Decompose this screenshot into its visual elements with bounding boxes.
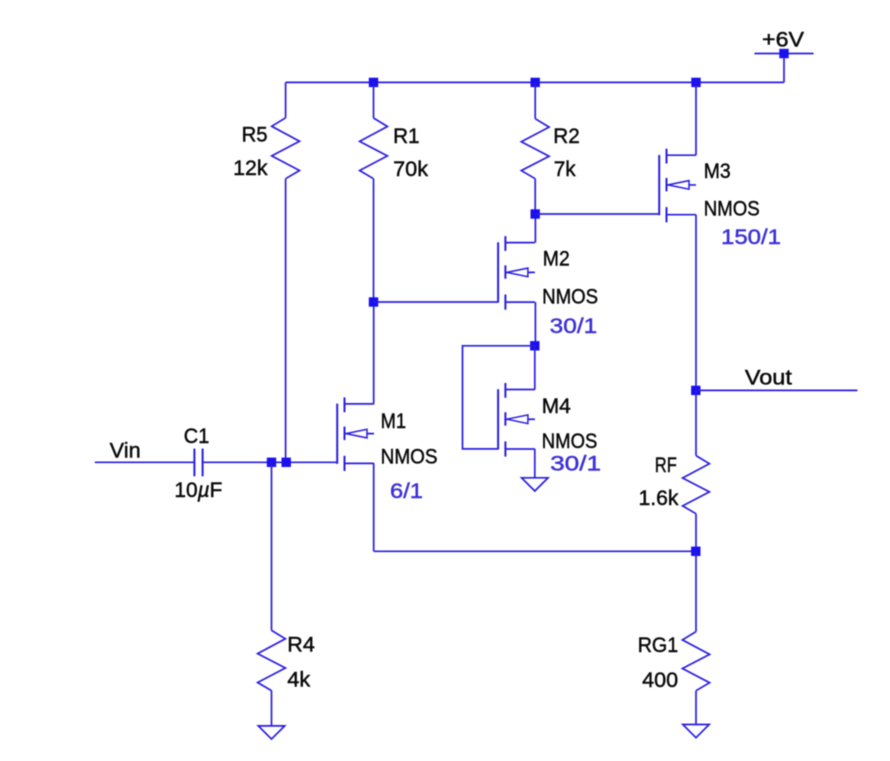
wire M1 source down (373, 463, 375, 551)
wire R5 to input node (285, 179, 287, 463)
wire rail to R5 (285, 82, 287, 117)
label M1 (381, 410, 407, 433)
junction node A (369, 297, 378, 306)
wire node B to M3 gate (535, 213, 659, 215)
svg-text:M4: M4 (542, 395, 571, 418)
svg-text:NMOS: NMOS (542, 430, 598, 453)
svg-text:NMOS: NMOS (542, 286, 598, 309)
junction +6V bar (779, 49, 788, 58)
svg-text:Vin: Vin (110, 439, 141, 462)
resistor R5 (272, 118, 300, 179)
svg-text:10µF: 10µF (174, 479, 222, 502)
value C1 10µF (174, 479, 222, 502)
label M3 (704, 160, 731, 183)
transistor M2 (498, 236, 535, 310)
label M4 (542, 395, 571, 418)
svg-text:12k: 12k (233, 157, 268, 180)
junction Vout (691, 386, 700, 395)
resistor R1 (360, 118, 388, 179)
wire +6V to VDD rail (783, 54, 785, 83)
wire RG1 to ground (695, 691, 697, 725)
value M4 30/1 (550, 452, 601, 475)
svg-text:30/1: 30/1 (550, 452, 601, 475)
value R2 7k (554, 158, 576, 181)
wire Vout to RF (695, 390, 697, 455)
value RF 1.6k (639, 487, 679, 510)
ground M4 (522, 478, 548, 491)
transistor M4 (498, 383, 535, 457)
svg-text:M2: M2 (543, 248, 570, 271)
wire R1 to node A (373, 179, 375, 302)
svg-text:7k: 7k (554, 158, 576, 181)
svg-text:R5: R5 (242, 123, 268, 146)
junction rail / M3 drain (691, 78, 700, 87)
junction rail / R1 (369, 78, 378, 87)
svg-text:Vout: Vout (745, 366, 792, 389)
label R4 (287, 633, 315, 656)
junction input node / R5 (282, 458, 291, 467)
wire VDD rail (286, 81, 784, 83)
junction rail / R2 (531, 78, 540, 87)
svg-text:RF: RF (655, 454, 677, 477)
label M4 NMOS (542, 430, 598, 453)
junction feedback node (691, 547, 700, 556)
wire M4 drain to node C (534, 346, 536, 390)
resistor RG1 (682, 632, 709, 691)
svg-text:400: 400 (642, 669, 678, 692)
wire R2 to node B (534, 179, 536, 214)
wire M1 drain to node A (373, 302, 375, 404)
svg-text:R4: R4 (287, 633, 315, 656)
value R1 70k (393, 158, 429, 181)
svg-text:C1: C1 (184, 425, 210, 448)
svg-text:NMOS: NMOS (381, 445, 438, 468)
label M1 NMOS (381, 445, 438, 468)
resistor RF (683, 456, 710, 514)
label R1 (393, 125, 420, 148)
capacitor C1 (194, 449, 202, 477)
label R5 (242, 123, 268, 146)
node Vin label (110, 439, 141, 462)
wire feedback to RF node (374, 550, 696, 552)
value M1 6/1 (390, 480, 423, 503)
svg-text:4k: 4k (287, 668, 311, 691)
wire Vin to C1 (95, 461, 194, 463)
junction node C (530, 341, 539, 350)
node Vout label (745, 366, 792, 389)
transistor M1 (337, 397, 374, 471)
wire rail to R1 (373, 82, 375, 118)
svg-text:R1: R1 (393, 125, 420, 148)
wire M4 source to ground (534, 449, 536, 478)
label M2 NMOS (542, 286, 598, 309)
svg-text:1.6k: 1.6k (639, 487, 679, 510)
resistor R2 (521, 119, 549, 179)
value M2 30/1 (550, 315, 598, 338)
svg-text:+6V: +6V (762, 28, 804, 51)
svg-text:70k: 70k (393, 158, 429, 181)
svg-text:NMOS: NMOS (704, 197, 760, 220)
resistor R4 (258, 630, 286, 690)
wire C1 to input node (203, 461, 337, 463)
wire input node to R4 (271, 462, 273, 630)
value R5 12k (233, 157, 268, 180)
svg-text:RG1: RG1 (638, 634, 679, 657)
junction node B (531, 209, 540, 218)
svg-text:6/1: 6/1 (390, 480, 423, 503)
svg-text:150/1: 150/1 (721, 226, 781, 249)
wire M2 drain to node B (534, 214, 536, 243)
svg-text:M1: M1 (381, 410, 407, 433)
svg-text:M3: M3 (704, 160, 731, 183)
wire M3 source to Vout (695, 215, 697, 391)
value R4 4k (287, 668, 311, 691)
junction input node / R4 (267, 458, 276, 467)
wire feedback node to RG1 (695, 551, 697, 631)
wire R4 to ground (271, 691, 273, 726)
ground R4 (258, 726, 284, 739)
value M3 150/1 (721, 226, 781, 249)
ground RG1 (683, 725, 709, 738)
label RF (655, 454, 677, 477)
wire rail to R2 (534, 82, 536, 118)
svg-text:R2: R2 (553, 125, 580, 148)
label RG1 (638, 634, 679, 657)
wire node A to M2 gate (374, 301, 499, 303)
wire rail to M3 drain (695, 82, 697, 155)
label C1 (184, 425, 210, 448)
wire Vout (696, 389, 858, 391)
wire RF to feedback node (695, 514, 697, 552)
power symbol +6V (754, 28, 813, 53)
label R2 (553, 125, 580, 148)
svg-text:30/1: 30/1 (550, 315, 598, 338)
wire M4 gate loop (463, 346, 535, 449)
wire M2 source to node C (534, 302, 536, 346)
transistor M3 (659, 149, 696, 223)
label M2 (543, 248, 570, 271)
value RG1 400 (642, 669, 678, 692)
label M3 NMOS (704, 197, 760, 220)
